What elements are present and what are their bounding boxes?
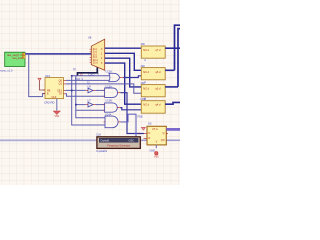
wire: chip TO to gate2 input2 xyxy=(66,94,105,97)
power port (red triangle) above chip xyxy=(38,78,45,90)
wire: demux out4 to FF4 second pin xyxy=(105,63,142,104)
designator FF1 xyxy=(141,42,147,62)
power port VSS below chip (red arrow down) xyxy=(53,111,60,118)
net label TP xyxy=(73,68,76,71)
pin labels left of U5 xyxy=(139,133,141,141)
svg-text:2FF: 2FF xyxy=(141,42,146,46)
svg-text:CLK: CLK xyxy=(96,133,101,137)
svg-text:q4 d: q4 d xyxy=(156,104,161,107)
svg-text:NC d: NC d xyxy=(143,104,149,107)
wire: rail B to gate3 input2 xyxy=(76,109,105,111)
svg-text:FDE: FDE xyxy=(141,97,146,101)
wire: FF2 out to vertical xyxy=(165,69,174,71)
label below demux xyxy=(97,71,99,75)
wire: branch down from main net to chip U10 xyxy=(29,54,45,97)
chip U10 (yellow rect center-left) xyxy=(45,78,64,99)
wire: right vertical 2 from top edge xyxy=(178,29,180,87)
sheet symbol SYNC (green) xyxy=(5,52,25,66)
svg-text:S0 d: S0 d xyxy=(93,60,98,62)
wire: light net y=140 chip U5 to right edge xyxy=(166,139,180,141)
svg-text:q7 d: q7 d xyxy=(156,49,161,52)
svg-text:U8: U8 xyxy=(88,36,92,40)
svg-text:U13A: U13A xyxy=(106,85,113,88)
designator gate U12A xyxy=(106,71,113,74)
svg-text:TO: TO xyxy=(59,93,62,96)
svg-text:R: R xyxy=(149,137,151,140)
junction buffer1 input xyxy=(71,90,73,92)
svg-text:CR2-RD: CR2-RD xyxy=(44,100,55,104)
wire: gate2 output down to chip U5 pin2 xyxy=(121,93,145,134)
power port triangle left of U5 xyxy=(141,127,145,130)
pin stubs chip U5 xyxy=(144,134,169,139)
wire: chip Q1 T2 net xyxy=(66,84,141,93)
rail B x75.8 vertical to gate4 xyxy=(76,76,105,118)
svg-text:2FF: 2FF xyxy=(141,64,146,68)
svg-text:seq_lock: seq_lock xyxy=(12,56,23,60)
pin number 10 near demux bottom xyxy=(80,72,83,76)
wire: demux out3 to FF3 xyxy=(105,58,142,87)
svg-text:q5 d: q5 d xyxy=(156,88,161,91)
buffer U7 (triangle) xyxy=(86,102,96,107)
svg-text:Crystal01: Crystal01 xyxy=(96,149,108,153)
gate U14A (AND, bottom) xyxy=(104,116,121,128)
wire: buffer1 out to gate2 xyxy=(96,89,105,91)
rail A x71.7 vertical to gate4 xyxy=(72,76,105,125)
wire: demux out2 to FF2 second pin xyxy=(105,53,142,70)
svg-text:GND: GND xyxy=(150,149,156,152)
wire: U5 bottom pin xyxy=(155,145,157,148)
wire: gate4 output to dark box xyxy=(121,114,137,137)
wire: chip clk pin down xyxy=(56,99,58,111)
designator above chip U10 xyxy=(45,74,51,78)
designator above demux xyxy=(88,36,92,40)
background grid xyxy=(0,0,180,185)
wire: chip CE1 to buffer1 xyxy=(66,89,86,91)
sheet entry pins (yellow) on green box xyxy=(22,53,25,59)
svg-text:FDE: FDE xyxy=(138,115,143,119)
svg-text:S1 d: S1 d xyxy=(93,63,98,65)
svg-text:q6 d: q6 d xyxy=(156,71,161,74)
power port circle below U5 xyxy=(150,149,160,158)
svg-text:VSS: VSS xyxy=(54,116,59,118)
pin stubs chip U10 xyxy=(43,80,66,93)
gate U13B (AND, third) xyxy=(103,103,120,112)
wire: rail B to buffer2 input xyxy=(76,104,86,106)
svg-text:U?-A: U?-A xyxy=(152,128,158,131)
svg-text:TP: TP xyxy=(73,68,76,71)
chip U5 (bottom right) xyxy=(147,126,166,145)
designator buffer U9 xyxy=(88,86,92,89)
flip-flop FF4 xyxy=(141,101,165,114)
svg-text:D: D xyxy=(149,132,151,135)
wire: gate3 output to FF4 xyxy=(120,108,141,110)
gate U13A (AND, second) xyxy=(103,88,120,97)
buffer U9 (triangle) xyxy=(86,88,96,93)
svg-text:U5: U5 xyxy=(148,122,152,126)
svg-text:NC d: NC d xyxy=(143,88,149,91)
wire: right vertical 1 from top edge xyxy=(175,25,181,70)
label below dark box xyxy=(96,149,108,153)
svg-text:OSC: OSC xyxy=(129,140,135,143)
sheet part Frequency Generator (dark box) xyxy=(97,137,140,149)
flip-flop FF3 xyxy=(141,85,165,97)
svg-text:NC d: NC d xyxy=(143,49,149,52)
net label T2 xyxy=(87,81,90,84)
junction node TP xyxy=(71,75,73,77)
label under chip xyxy=(44,100,55,104)
designator above dark box xyxy=(96,133,101,137)
designator gate U13A xyxy=(106,85,113,88)
thick purple wire from U5 right xyxy=(166,128,180,131)
wire: buffer2 out to gate3 xyxy=(96,104,105,106)
wire: FF1 out to right edge xyxy=(165,47,180,49)
designator FF2 xyxy=(141,64,147,84)
svg-text:U10: U10 xyxy=(45,74,51,78)
junction buffer2 input xyxy=(75,104,77,106)
designator above chip U5 xyxy=(148,122,152,126)
svg-text:VSS: VSS xyxy=(154,155,159,158)
svg-text:U12A: U12A xyxy=(106,71,113,74)
wire: light net y=140 dark box to chip U5 xyxy=(140,139,147,141)
wire: FF4 out to right edge xyxy=(165,102,180,104)
svg-text:U13B: U13B xyxy=(106,100,113,103)
wire: FF3 out to vertical xyxy=(165,86,178,88)
label under green sheet xyxy=(0,68,13,72)
designator gate U14A xyxy=(105,113,112,116)
flip-flop FF1 xyxy=(141,46,165,58)
wire: demux out1 to FF1 xyxy=(105,47,142,49)
designator buffer U7 xyxy=(88,100,92,103)
svg-text:Frequency Generator: Frequency Generator xyxy=(107,144,130,147)
designator FF3 xyxy=(141,81,147,101)
demux left pin stubs xyxy=(90,49,92,63)
svg-text:U14A: U14A xyxy=(105,113,112,116)
net label RDA_S xyxy=(75,78,83,81)
svg-text:2FF: 2FF xyxy=(141,81,146,85)
net label CLKO xyxy=(88,73,95,76)
demux U4 (trapezoid) xyxy=(91,39,104,70)
svg-text:A: A xyxy=(144,58,146,62)
designator FF4 xyxy=(138,97,146,118)
flip-flop FF2 xyxy=(141,68,165,80)
svg-text:QN: QN xyxy=(161,139,165,142)
svg-text:sync_v1.0: sync_v1.0 xyxy=(0,68,13,72)
svg-text:NC d: NC d xyxy=(143,71,149,74)
wire: gate1 output down to chip U5 xyxy=(123,76,141,78)
wire: TP net into gate1 input1 xyxy=(72,75,110,77)
svg-text:Q: Q xyxy=(163,132,165,135)
svg-text:CLK: CLK xyxy=(52,96,57,99)
svg-text:Crystal1: Crystal1 xyxy=(100,140,110,143)
thick dark wire from demux bottom pin xyxy=(78,68,98,76)
wire: chip Q0 to gate1 input2 xyxy=(66,79,109,81)
wire: long light net y=140 left xyxy=(0,139,97,141)
designator gate U13B xyxy=(106,100,113,103)
wire: main net green box to demux xyxy=(25,53,91,55)
gate U12A (OR, top) xyxy=(109,73,123,81)
